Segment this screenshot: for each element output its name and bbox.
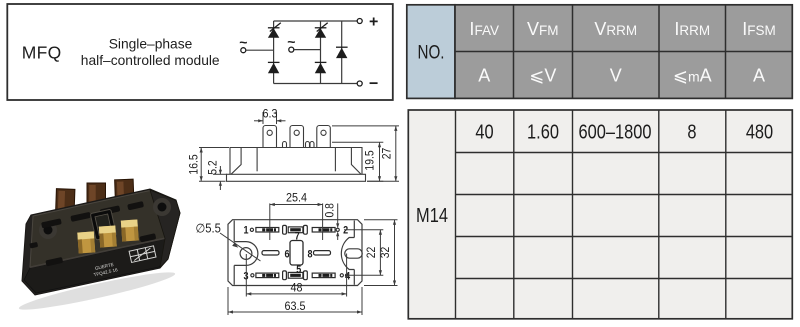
wire top rail to + <box>274 20 360 22</box>
terminal + <box>357 14 378 31</box>
table body column lines <box>456 110 726 319</box>
pin 7 assembly <box>283 225 308 234</box>
gate pin c <box>310 142 314 148</box>
table header column lines <box>455 5 792 99</box>
thyristor T1 <box>268 23 281 38</box>
svg-text:27: 27 <box>381 148 394 160</box>
svg-text:⩽V: ⩽V <box>529 66 556 86</box>
right step edge <box>334 148 336 172</box>
svg-text:16.5: 16.5 <box>188 154 201 174</box>
svg-text:−: − <box>369 75 378 92</box>
right chamfer edge <box>351 148 361 175</box>
left ear boss <box>39 221 57 239</box>
dim 0.8 <box>337 203 339 240</box>
right slot inner capsule <box>345 249 362 258</box>
right rim line lower <box>353 270 355 285</box>
AC input terminal 1 <box>239 34 247 53</box>
wire AC1 to leg1 <box>246 49 274 51</box>
module body outline <box>230 148 362 175</box>
wire leg 2 vertical <box>320 21 322 84</box>
svg-text:NO.: NO. <box>417 41 444 63</box>
diode D2 <box>315 62 327 73</box>
right slot outer arc <box>341 238 354 270</box>
svg-text:1.60: 1.60 <box>527 120 559 143</box>
terminal - <box>357 75 378 92</box>
svg-text:5: 5 <box>296 264 301 276</box>
mounting hole left <box>240 248 252 260</box>
junction dot pin4 ext <box>345 274 348 277</box>
pin 1 tab <box>256 228 279 233</box>
back tab P1 <box>56 189 75 214</box>
brass tab F2 <box>99 225 117 247</box>
dim 25.4 <box>270 203 323 240</box>
svg-text:8: 8 <box>687 120 696 143</box>
wire leg 3 vertical <box>341 21 343 84</box>
brass tab F1 <box>77 231 95 253</box>
dim 16.5 <box>199 148 229 182</box>
tab terminal 2 side <box>290 126 304 148</box>
svg-text:Single–phase: Single–phase <box>109 37 193 52</box>
tab hole 3 <box>321 130 326 135</box>
dim 5.2 <box>213 166 227 190</box>
tab terminal 1 side <box>263 126 277 148</box>
base plate <box>227 174 366 181</box>
pin 2 dot <box>336 228 339 231</box>
svg-text:8: 8 <box>307 249 312 261</box>
svg-text:32: 32 <box>380 247 393 259</box>
pin 6 pad <box>262 251 279 255</box>
pin 1 dot <box>250 228 253 231</box>
svg-text:1: 1 <box>244 225 249 237</box>
pin 5 assembly <box>283 271 308 280</box>
diode D1 <box>268 62 280 73</box>
svg-text:4: 4 <box>345 271 350 283</box>
dia 5.5 leader <box>220 233 261 261</box>
right rim line upper <box>353 221 355 238</box>
photo shadow <box>17 267 176 315</box>
svg-text:480: 480 <box>746 120 773 143</box>
dim 22 <box>344 230 383 275</box>
svg-text:A: A <box>478 66 490 86</box>
svg-text:600–1800: 600–1800 <box>579 120 652 143</box>
left boss arc <box>234 242 258 266</box>
top view drawing <box>228 220 362 286</box>
svg-text:~: ~ <box>287 33 295 49</box>
svg-text:25.4: 25.4 <box>286 192 308 205</box>
table header grey block <box>455 5 792 99</box>
pin 3 dot <box>251 274 254 277</box>
svg-text:0.8: 0.8 <box>324 203 337 217</box>
side view drawing <box>227 126 366 182</box>
pin 8 pad <box>314 251 331 255</box>
tab hole 1 <box>267 130 272 135</box>
wire bottom rail to - <box>274 83 360 85</box>
svg-text:MFQ: MFQ <box>22 43 62 63</box>
svg-text:half–controlled module: half–controlled module <box>81 53 220 68</box>
pin 4 tab <box>312 273 335 278</box>
left chamfer edge <box>231 148 241 175</box>
tab hole 2 <box>294 130 299 135</box>
left ear hole <box>44 226 53 235</box>
svg-text:V: V <box>610 66 622 86</box>
AC input terminal 2 <box>287 33 295 52</box>
svg-text:A: A <box>753 66 765 86</box>
product photo <box>17 179 180 315</box>
gate pin a <box>283 142 287 148</box>
dim 48 <box>246 254 346 297</box>
svg-text:63.5: 63.5 <box>284 301 305 314</box>
svg-text:2: 2 <box>343 225 348 237</box>
brass tab F3 <box>121 219 139 241</box>
svg-text:~: ~ <box>239 34 247 50</box>
right ear hole <box>158 203 167 212</box>
pin 3 tab <box>256 273 279 278</box>
dim 27 <box>332 126 399 181</box>
right ear boss <box>153 198 171 216</box>
right end face <box>150 190 180 268</box>
thyristor T2 <box>315 23 328 38</box>
diode D3 freewheel <box>336 47 348 58</box>
svg-text:22: 22 <box>365 247 378 259</box>
center block <box>290 241 303 266</box>
back tab P2 <box>87 183 106 206</box>
title box border <box>7 4 393 100</box>
pin 2 tab <box>312 228 335 233</box>
left rim line upper <box>233 221 235 242</box>
back tab P3 <box>115 179 134 202</box>
module body silhouette <box>22 189 180 295</box>
gate pin b <box>306 142 310 148</box>
table header NO cell <box>407 5 455 99</box>
svg-text:+: + <box>369 14 378 31</box>
svg-text:∅5.5: ∅5.5 <box>196 221 222 236</box>
svg-text:M14: M14 <box>416 203 448 226</box>
svg-text:⩽mA: ⩽mA <box>673 66 712 86</box>
wire leg 1 vertical <box>273 21 275 84</box>
dim 32 <box>364 220 398 286</box>
table body row lines <box>456 153 793 279</box>
svg-text:40: 40 <box>475 120 493 143</box>
module front face <box>24 239 167 293</box>
tab terminal 3 side <box>317 126 331 148</box>
module top face <box>30 191 173 268</box>
logo on front face <box>129 246 156 263</box>
svg-text:19.5: 19.5 <box>364 150 377 170</box>
center connector block <box>90 209 116 240</box>
svg-text:48: 48 <box>291 282 303 295</box>
table body background <box>408 110 792 319</box>
wire AC2 to leg2 <box>294 49 321 51</box>
svg-text:5.2: 5.2 <box>207 160 220 174</box>
module label text <box>92 261 119 277</box>
left rim line lower <box>233 265 235 284</box>
left step edge <box>256 148 258 172</box>
dim 6.3 <box>254 112 286 124</box>
dim 19.5 <box>332 142 383 181</box>
pin 4 dot <box>340 274 343 277</box>
top face slots <box>25 199 157 269</box>
dim 63.5 <box>228 287 362 315</box>
front face top highlight <box>30 239 165 268</box>
module footprint outline <box>228 220 362 286</box>
svg-text:6: 6 <box>284 249 289 261</box>
svg-text:6.3: 6.3 <box>262 108 277 121</box>
